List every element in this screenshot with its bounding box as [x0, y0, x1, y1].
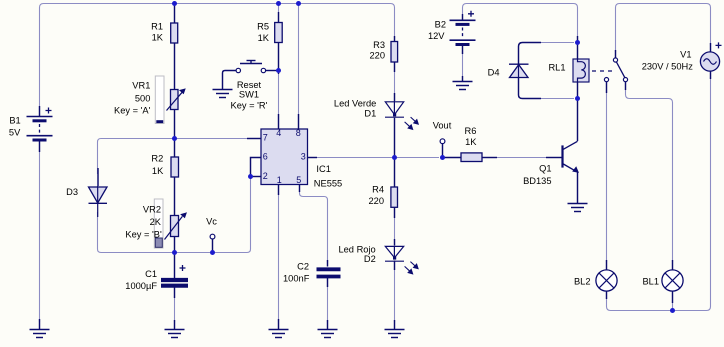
svg-text:BD135: BD135 — [523, 176, 551, 186]
svg-text:1: 1 — [277, 175, 282, 185]
svg-text:7: 7 — [263, 133, 268, 143]
svg-text:220: 220 — [368, 196, 384, 206]
svg-text:230V / 50Hz: 230V / 50Hz — [642, 61, 694, 71]
svg-text:1K: 1K — [152, 166, 164, 176]
svg-text:SW1: SW1 — [239, 90, 259, 100]
svg-text:RL1: RL1 — [548, 62, 565, 72]
svg-text:8: 8 — [296, 128, 301, 138]
svg-text:3: 3 — [301, 152, 306, 162]
svg-text:Q1: Q1 — [539, 164, 551, 174]
svg-text:C1: C1 — [145, 269, 157, 279]
svg-text:C2: C2 — [297, 261, 309, 271]
svg-text:D4: D4 — [488, 67, 500, 77]
svg-text:R5: R5 — [257, 22, 269, 32]
svg-text:Led Verde: Led Verde — [334, 99, 376, 109]
svg-text:Reset: Reset — [237, 80, 262, 90]
svg-text:1K: 1K — [152, 33, 164, 43]
svg-text:2: 2 — [263, 171, 268, 181]
svg-text:5V: 5V — [9, 128, 21, 138]
svg-text:4: 4 — [276, 128, 281, 138]
svg-text:100nF: 100nF — [283, 273, 310, 283]
svg-text:BL1: BL1 — [642, 277, 659, 287]
svg-text:1K: 1K — [258, 33, 270, 43]
svg-text:B2: B2 — [435, 19, 446, 29]
svg-text:B1: B1 — [9, 116, 20, 126]
svg-text:1000µF: 1000µF — [125, 281, 157, 291]
svg-text:2K: 2K — [150, 217, 162, 227]
svg-text:R1: R1 — [151, 22, 163, 32]
svg-text:500: 500 — [135, 94, 151, 104]
svg-text:BL2: BL2 — [574, 277, 591, 287]
svg-text:1K: 1K — [465, 137, 477, 147]
svg-text:12V: 12V — [428, 31, 445, 41]
svg-text:R4: R4 — [372, 184, 384, 194]
svg-text:D2: D2 — [364, 254, 376, 264]
svg-text:Led Rojo: Led Rojo — [338, 245, 375, 255]
svg-text:VR2: VR2 — [143, 205, 161, 215]
svg-text:D3: D3 — [66, 187, 78, 197]
svg-text:R6: R6 — [465, 126, 477, 136]
svg-text:220: 220 — [369, 51, 385, 61]
svg-text:V1: V1 — [680, 49, 691, 59]
svg-text:NE555: NE555 — [314, 178, 342, 188]
svg-text:IC1: IC1 — [316, 164, 330, 174]
svg-text:5: 5 — [296, 175, 301, 185]
svg-text:VR1: VR1 — [132, 81, 150, 91]
svg-text:Vout: Vout — [433, 121, 452, 131]
svg-text:6: 6 — [263, 152, 268, 162]
svg-text:D1: D1 — [364, 109, 376, 119]
svg-text:Key = 'R': Key = 'R' — [231, 101, 268, 111]
svg-text:R2: R2 — [151, 154, 163, 164]
svg-text:Key = 'A': Key = 'A' — [114, 106, 151, 116]
svg-text:Vc: Vc — [206, 216, 217, 226]
svg-text:Key = 'B': Key = 'B' — [125, 230, 162, 240]
svg-text:R3: R3 — [373, 40, 385, 50]
